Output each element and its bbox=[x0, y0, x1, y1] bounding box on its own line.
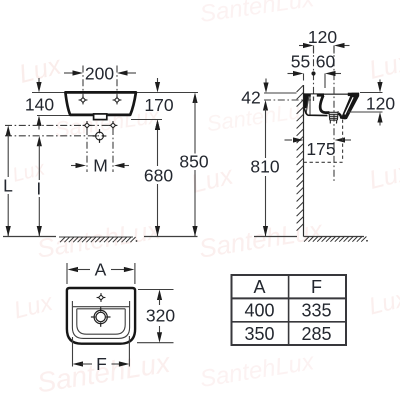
faucet hole plan view bbox=[97, 293, 106, 302]
dash-dot drain centre line (side view) bbox=[333, 46, 335, 184]
inner bowl outline bbox=[77, 309, 125, 334]
back wall inner line bbox=[309, 97, 311, 115]
svg-text:F: F bbox=[311, 277, 322, 297]
rim contour line behind section bbox=[324, 93, 349, 95]
dimension 810 line bbox=[265, 109, 267, 158]
lower fixing hole right bbox=[109, 121, 118, 130]
floor line left of wall (side view) bbox=[254, 236, 297, 238]
svg-text:175: 175 bbox=[306, 139, 335, 159]
svg-text:M: M bbox=[93, 155, 108, 175]
plan view outer outline bbox=[67, 288, 135, 344]
floor hatched segment (front view) bbox=[59, 236, 133, 238]
floor line right of wall (side view) bbox=[304, 236, 365, 238]
front view: extension line bottom-right (170/680 reference, tab bottom) bbox=[131, 119, 162, 121]
svg-text:400: 400 bbox=[244, 301, 274, 321]
svg-text:120: 120 bbox=[366, 93, 395, 113]
dash-dot centre line through left faucet hole (200 dim) bbox=[82, 66, 84, 98]
floor line right segment (front view) bbox=[144, 236, 198, 238]
dimension 140 bbox=[38, 78, 40, 84]
svg-text:I: I bbox=[36, 178, 41, 198]
svg-text:850: 850 bbox=[179, 151, 208, 171]
dimension 175 bbox=[285, 139, 293, 141]
svg-text:60: 60 bbox=[316, 51, 336, 71]
dimension 42 bbox=[265, 79, 267, 84]
dot on faucet centre line bbox=[311, 71, 315, 75]
extension line rim top (42 dim) bbox=[264, 92, 297, 94]
dimension 170 bbox=[157, 78, 159, 84]
svg-text:680: 680 bbox=[144, 165, 173, 185]
dimension 55 / 60 bbox=[288, 73, 295, 75]
dash-dot line through drain hole bbox=[5, 135, 104, 137]
drain flange stack bbox=[329, 111, 339, 120]
dash-dot fixing-hole height line (42/810 reference) bbox=[264, 99, 311, 101]
svg-text:320: 320 bbox=[146, 305, 175, 325]
svg-text:200: 200 bbox=[85, 63, 114, 83]
upper mounting hole right bbox=[113, 96, 122, 105]
lower fixing hole left bbox=[83, 121, 92, 130]
dash-dot faucet centre line (side view) bbox=[313, 46, 315, 102]
wall hatching bbox=[297, 85, 304, 231]
dash-dot centre line below right fixing hole bbox=[112, 128, 114, 172]
dimension I line bbox=[37, 136, 42, 147]
extension tick at drain line (120 top) bbox=[333, 46, 335, 54]
basin front outline bbox=[65, 92, 135, 115]
plan view extension lines for A bbox=[66, 263, 68, 284]
svg-text:335: 335 bbox=[301, 301, 331, 321]
svg-text:350: 350 bbox=[244, 324, 274, 344]
front view: extension line bottom-left (140 reference, basin bottom) bbox=[37, 115, 70, 117]
dot after hatching bbox=[136, 240, 138, 242]
fixing tab under basin bbox=[94, 114, 107, 120]
dash-dot line through lower fixing holes bbox=[5, 124, 110, 126]
svg-text:140: 140 bbox=[25, 94, 54, 114]
320 extension lines bbox=[138, 289, 174, 291]
svg-text:120: 120 bbox=[308, 27, 337, 47]
rim top-right bar bbox=[348, 93, 359, 96]
deck top bar bbox=[304, 93, 325, 96]
wall bracket (filled) bbox=[304, 93, 309, 108]
right outer band (front wall section) bbox=[341, 93, 359, 119]
svg-text:A: A bbox=[95, 259, 107, 279]
basin underside bbox=[304, 108, 327, 115]
plan inner wall line bbox=[72, 301, 129, 338]
extension tick at faucet line (120 top) bbox=[313, 46, 315, 54]
svg-text:42: 42 bbox=[241, 87, 260, 107]
drain hole front view bbox=[93, 129, 107, 143]
floor hatching right of wall bbox=[304, 237, 366, 242]
front view: extension line top (140/170 reference, rim top) bbox=[32, 92, 66, 94]
dashed outlet projection vertical bbox=[342, 120, 344, 162]
inner bowl rim double line bbox=[73, 306, 129, 308]
wall face line (side view) bbox=[303, 85, 305, 237]
dimension 120 top bbox=[299, 45, 305, 47]
results table bbox=[232, 275, 347, 345]
svg-text:55: 55 bbox=[291, 51, 310, 71]
dash-dot centre line through right faucet hole (200 dim) bbox=[116, 66, 118, 98]
dimension 200 bbox=[64, 72, 74, 74]
dimension L line bbox=[6, 125, 11, 135]
extension drain level right bbox=[348, 111, 383, 113]
dimension 320 bbox=[157, 290, 162, 301]
wall-face extension tick (55 dim) bbox=[303, 74, 305, 81]
extension tick at x=325 (60 dim) bbox=[324, 74, 326, 89]
dimension A bbox=[68, 267, 79, 272]
bowl bottom right / foot bbox=[339, 114, 346, 119]
dash-dot centre line below left fixing hole bbox=[86, 128, 88, 172]
dimension F bbox=[73, 361, 84, 366]
F extension lines bbox=[72, 337, 74, 367]
upper mounting hole left bbox=[79, 96, 88, 105]
dimension M bbox=[71, 165, 78, 167]
drain plan view bbox=[91, 307, 111, 327]
bowl inner back wall bbox=[320, 96, 329, 113]
svg-text:F: F bbox=[96, 354, 107, 374]
faucet hole slot in deck bbox=[311, 94, 317, 97]
drain small parts below flange bbox=[329, 121, 331, 124]
dimension 850 line bbox=[192, 93, 197, 104]
extension rim top right bbox=[360, 92, 383, 94]
white sliver inside right band bbox=[345, 97, 353, 114]
dashed outlet projection horizontal bbox=[304, 161, 343, 163]
faucet hole through deck bbox=[313, 97, 315, 101]
svg-text:810: 810 bbox=[250, 156, 279, 176]
dimension 680 line bbox=[157, 129, 159, 167]
floor line left segment (front view) bbox=[3, 236, 56, 238]
svg-text:A: A bbox=[253, 277, 265, 297]
svg-text:170: 170 bbox=[144, 95, 173, 115]
svg-text:285: 285 bbox=[301, 324, 331, 344]
rear trapezoid slant bbox=[306, 97, 309, 114]
svg-text:L: L bbox=[3, 175, 13, 195]
